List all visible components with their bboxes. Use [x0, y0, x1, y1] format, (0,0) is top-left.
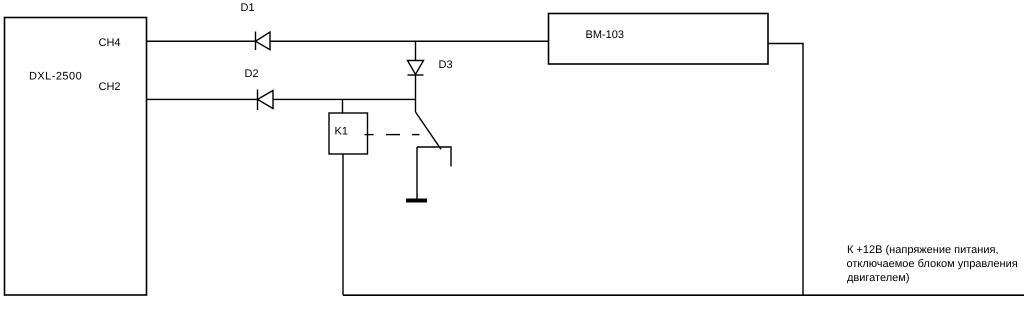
diode D1: [256, 32, 271, 51]
svg-text:D3: D3: [439, 59, 453, 71]
svg-text:DXL-2500: DXL-2500: [29, 71, 82, 83]
wire CH2 to D2 anode: [147, 98, 258, 100]
svg-text:К +12В (напряжение питания,: К +12В (напряжение питания,: [847, 244, 999, 256]
device BM-103 box: [549, 14, 769, 65]
wire D2 to node A: [273, 98, 416, 100]
dashed mechanical link dash 3: [412, 134, 420, 136]
svg-text:D2: D2: [245, 68, 259, 80]
diode D2: [258, 90, 274, 111]
relay coil K1 box: [329, 113, 368, 154]
wire CH4 to D1 anode: [147, 40, 256, 42]
relay contact blade: [416, 112, 442, 149]
svg-text:CH2: CH2: [99, 81, 121, 93]
svg-text:двигателем): двигателем): [847, 272, 909, 284]
wire top rail to D3 cathode: [415, 41, 417, 60]
wire K1 coil to bottom rail: [342, 154, 344, 295]
svg-text:D1: D1: [241, 2, 255, 14]
dashed mechanical link from K1 to contact, dash 1: [365, 134, 374, 136]
wire contact to ground: [416, 147, 418, 199]
dashed mechanical link dash 2: [386, 134, 400, 136]
contact stationary terminal bracket: [417, 147, 451, 167]
svg-text:BM-103: BM-103: [586, 29, 625, 41]
wire D1 to BM-103: [270, 40, 549, 42]
device DXL-2500 box: [5, 18, 147, 296]
wire BM-103 output to +12V riser: [768, 44, 803, 296]
diode D3: [408, 61, 424, 76]
svg-text:отключаемое блоком управления: отключаемое блоком управления: [847, 258, 1018, 270]
wire bottom +12V rail: [343, 294, 1024, 296]
wire D3 anode to contact pivot: [415, 75, 417, 112]
ground: [406, 199, 427, 203]
wire node A branch to relay coil K1: [342, 99, 344, 113]
svg-text:CH4: CH4: [99, 37, 121, 49]
svg-text:K1: K1: [335, 125, 348, 137]
